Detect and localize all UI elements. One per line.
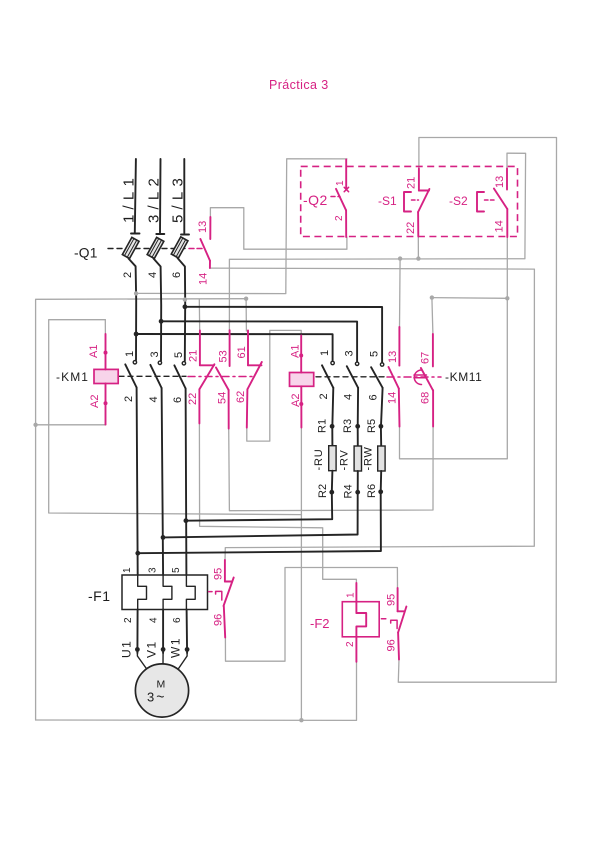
svg-text:13: 13 [494, 176, 506, 188]
wire KM11 13 top [399, 259, 402, 328]
wire KM11 67 top [432, 298, 433, 334]
node tap phase2 bus [159, 319, 164, 324]
breaker Q1 pole 3 [171, 236, 188, 258]
svg-text:22: 22 [187, 393, 199, 405]
wire phase1 KM1 to F1 [137, 388, 138, 576]
wire F1 to motor terminals [136, 610, 138, 654]
svg-text:14: 14 [198, 273, 210, 285]
svg-text:14: 14 [494, 220, 506, 232]
svg-text:61: 61 [236, 346, 248, 358]
svg-text:3~: 3~ [147, 689, 164, 705]
svg-text:2: 2 [123, 617, 134, 623]
switch Q2 [303, 160, 349, 238]
wire phase L3 top feeder [183, 159, 185, 233]
svg-text:2: 2 [318, 393, 330, 399]
wire U1 to motor [137, 652, 148, 672]
contactor coil KM11 [290, 336, 314, 428]
node tap R6 line on phase1 [135, 551, 140, 556]
wire RV to R4 [357, 471, 359, 492]
mechanical link KM1 dashed [119, 375, 186, 377]
svg-text:Práctica 3: Práctica 3 [269, 78, 329, 92]
svg-text:R3: R3 [342, 419, 354, 433]
node L2 terminal tick [156, 233, 164, 235]
wire S2 13 wrap to KM1 53 [229, 153, 525, 330]
svg-text:4: 4 [148, 396, 160, 402]
node gray tap on phase1 [134, 291, 138, 295]
node tap phase3 bus [183, 304, 188, 309]
pushbutton S2 [449, 169, 507, 238]
svg-text:A1: A1 [290, 345, 302, 358]
F1 heater pole 3 [186, 575, 195, 610]
svg-text:95: 95 [386, 594, 398, 606]
breaker Q1 pole 1 [122, 237, 139, 259]
svg-text:A2: A2 [290, 394, 302, 407]
contactor KM1 pole 1 contact [123, 351, 137, 402]
svg-text:1: 1 [319, 350, 331, 356]
node W1 [185, 647, 190, 652]
svg-text:2: 2 [345, 641, 356, 647]
svg-text:W1: W1 [169, 637, 183, 658]
thermal relay F2 [310, 583, 379, 662]
svg-text:2: 2 [122, 272, 134, 278]
wire bus phase1 to KM11 pole1 [136, 334, 333, 361]
wire phase L3 Q1 to KM1 contact [178, 258, 186, 361]
wire 21 top drop [198, 299, 200, 331]
wire phase L1 Q1 to KM1 contact [129, 259, 137, 361]
thermal contact F2 95-96 [381, 588, 406, 660]
contactor KM11 pole3 contact [368, 351, 384, 401]
F1 heater pole 2 [163, 575, 172, 610]
node junction 61-top [244, 297, 248, 301]
wire KM1 A1 loop [49, 320, 302, 515]
svg-text:5/L3: 5/L3 [170, 173, 187, 223]
node R6 [378, 489, 383, 494]
svg-text:21: 21 [406, 177, 418, 189]
wire phase L2 top feeder [159, 159, 162, 233]
svg-text:R2: R2 [317, 484, 329, 498]
wire A2 horizontal [36, 424, 106, 426]
svg-text:V1: V1 [145, 640, 159, 658]
wire KM1 54 to KM11 68 [229, 427, 433, 511]
svg-text:5: 5 [171, 567, 182, 573]
svg-text:54: 54 [217, 392, 229, 404]
pushbutton S1 [378, 169, 429, 237]
wire R6 return line [138, 492, 381, 553]
wire KM1 22 to F2 terminal 1 [199, 423, 356, 583]
svg-text:22: 22 [405, 222, 417, 234]
svg-text:-RW: -RW [363, 446, 375, 470]
node R5 [379, 424, 384, 429]
svg-text:3: 3 [149, 351, 161, 357]
wire R4 return line [163, 492, 358, 537]
wire phase2 KM1 to F1 [162, 388, 164, 575]
svg-text:-F1: -F1 [88, 588, 111, 604]
wire phase L1 top feeder [135, 159, 136, 233]
node L1 terminal tick [131, 233, 140, 235]
svg-text:14: 14 [387, 392, 399, 404]
thermal relay F1 box [122, 575, 208, 610]
wire RU to R2 [331, 471, 334, 493]
motor M1 circle [135, 664, 188, 717]
svg-text:-RV: -RV [339, 449, 351, 470]
svg-text:96: 96 [213, 614, 225, 626]
resistor RW [378, 446, 385, 471]
breaker Q1 aux contact 13-14 [197, 217, 210, 285]
breaker Q1 pole 2 [147, 237, 164, 259]
svg-text:A2: A2 [89, 395, 101, 408]
wire Q2 terminal2 to Q1 aux 13 [210, 208, 347, 250]
svg-text:6: 6 [172, 617, 183, 623]
breaker Q1 mechanical dashed link [108, 248, 188, 250]
svg-text:95: 95 [213, 568, 225, 580]
svg-text:1: 1 [124, 351, 136, 357]
contactor KM1 aux contact 53-54 NO [216, 330, 230, 428]
svg-text:R5: R5 [366, 419, 378, 433]
svg-text:53: 53 [218, 350, 230, 362]
svg-text:2: 2 [334, 215, 345, 221]
wire node line Q KM1-A2 loop [36, 299, 247, 720]
svg-text:R1: R1 [317, 419, 329, 433]
contactor KM11 aux contact 13-14 NO [387, 327, 400, 427]
svg-text:4: 4 [343, 394, 355, 400]
contactor KM11 timed contact 67-68 [414, 334, 433, 427]
svg-text:67: 67 [420, 352, 432, 364]
svg-text:-Q1: -Q1 [74, 246, 98, 261]
node tap R4 line on phase2 [161, 535, 166, 540]
svg-text:1: 1 [346, 592, 357, 598]
node junction 67 wire [430, 295, 434, 299]
contactor KM11 pole1 contact [318, 350, 334, 400]
wire RW to R6 [380, 471, 383, 492]
svg-text:-RU: -RU [313, 449, 325, 471]
wire bus phase2 to KM11 pole2 [161, 321, 357, 361]
wire F2 96 to S1 21 [398, 138, 556, 683]
node V1 [161, 647, 166, 652]
node junction S2-14 wire [505, 296, 509, 300]
mechanical link KM11 dashed [316, 376, 385, 378]
svg-text:-S1: -S1 [378, 194, 397, 208]
wire KM11 pole2 to R3 [357, 388, 359, 446]
wire KM1 A1 stub [104, 320, 106, 334]
contactor KM11 pole2 contact [343, 350, 359, 400]
wire KM11 pole1 to R1 [332, 388, 333, 446]
svg-text:4: 4 [147, 272, 159, 278]
wire KM11 A2 down to rail [300, 427, 302, 720]
svg-text:6: 6 [368, 394, 380, 400]
svg-text:-S2: -S2 [449, 194, 468, 208]
svg-text:2: 2 [123, 396, 135, 402]
svg-text:R6: R6 [366, 484, 378, 498]
contactor KM1 aux contact 21-22 NC [187, 331, 214, 424]
svg-text:6: 6 [172, 397, 184, 403]
wire phase3 KM1 to F1 [185, 389, 188, 576]
wire Q1 aux 14 to F1 95 [210, 268, 535, 560]
node rail junction KM11 A2 [299, 718, 303, 722]
svg-text:-Q2: -Q2 [303, 192, 328, 208]
svg-text:13: 13 [387, 351, 399, 363]
svg-text:5: 5 [369, 351, 381, 357]
svg-text:R4: R4 [343, 484, 355, 498]
node U1 [135, 647, 140, 652]
svg-text:3: 3 [344, 350, 356, 356]
wire phase L2 Q1 to KM1 contact [154, 259, 162, 361]
node gray corner A2 loop top [183, 297, 187, 301]
svg-text:3/L2: 3/L2 [146, 173, 163, 223]
wire bottom rail [36, 662, 357, 721]
svg-text:13: 13 [197, 221, 209, 233]
contactor coil KM1 [56, 334, 118, 425]
node tap R2 line on phase3 [184, 518, 189, 523]
svg-text:1/L1: 1/L1 [121, 173, 138, 223]
svg-text:U1: U1 [120, 640, 134, 658]
svg-text:1: 1 [122, 567, 133, 573]
svg-text:A1: A1 [88, 345, 100, 358]
wire bus phase3 to KM11 pole3 [185, 307, 382, 363]
svg-text:5: 5 [173, 352, 185, 358]
svg-text:68: 68 [420, 392, 432, 404]
wire node 67 to S2-14 [432, 297, 507, 300]
svg-text:21: 21 [188, 350, 200, 362]
svg-text:6: 6 [171, 272, 183, 278]
node junction A2 left [33, 423, 37, 427]
thermal contact F1 95-96 [209, 560, 234, 638]
resistor RV [354, 446, 361, 471]
wire KM1 62 to KM11 A1 [247, 330, 301, 441]
node R1 [330, 424, 335, 429]
svg-text:4: 4 [149, 617, 160, 623]
resistor RU [329, 446, 336, 471]
svg-text:62: 62 [235, 391, 247, 403]
wire R2 return line [186, 492, 332, 521]
wire W1 to motor [177, 652, 188, 672]
wire F1 96 to F2 95 [225, 568, 397, 662]
svg-text:96: 96 [386, 639, 398, 651]
svg-text:-KM11: -KM11 [445, 370, 482, 384]
svg-text:3: 3 [148, 567, 159, 573]
node tap phase1 bus [134, 332, 139, 337]
wire S2 14 down to KM11 14 [400, 237, 508, 459]
wire S1 22 down [417, 237, 419, 259]
svg-text:-KM1: -KM1 [56, 370, 89, 384]
wire KM11 pole3 to R5 [381, 388, 383, 446]
svg-text:1: 1 [335, 180, 346, 186]
node R3 [355, 424, 360, 429]
control box dashed enclosure [301, 166, 518, 236]
wire 61 top drop [245, 299, 247, 331]
contactor KM1 aux contact 61-62 NC [235, 330, 262, 427]
contactor KM1 pole 3 contact [172, 352, 186, 403]
node R4 [355, 490, 360, 495]
wire control feed from phase1 to Q2 terminal1 [136, 159, 347, 294]
node R2 [329, 490, 334, 495]
node junction KM11-13 top [398, 256, 402, 260]
node junction S1-22 [416, 256, 420, 260]
svg-text:-F2: -F2 [310, 616, 330, 631]
F1 heater pole 1 [138, 575, 147, 610]
contactor KM1 pole 2 contact [148, 351, 162, 402]
wire V1 to motor [162, 652, 164, 664]
node L3 terminal tick [181, 234, 189, 236]
